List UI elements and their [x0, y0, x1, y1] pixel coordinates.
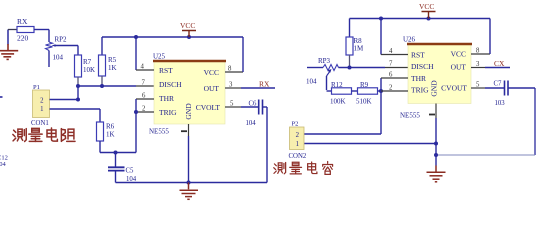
svg-text:510K: 510K: [356, 98, 372, 106]
svg-text:220: 220: [17, 34, 29, 43]
svg-text:NE555: NE555: [149, 128, 169, 136]
svg-text:1: 1: [296, 141, 299, 148]
svg-text:DISCH: DISCH: [411, 62, 434, 71]
svg-text:CVOUT: CVOUT: [441, 83, 467, 92]
svg-text:RP2: RP2: [55, 36, 68, 44]
svg-text:5: 5: [476, 82, 480, 89]
svg-text:VCC: VCC: [204, 68, 219, 77]
svg-text:U26: U26: [403, 36, 416, 44]
svg-text:104: 104: [246, 120, 257, 127]
svg-text:104: 104: [0, 161, 7, 168]
svg-text:GND: GND: [184, 103, 193, 120]
svg-text:R7: R7: [83, 58, 92, 66]
svg-text:TRIG: TRIG: [411, 85, 429, 94]
svg-text:5: 5: [230, 101, 234, 108]
svg-text:CVOLT: CVOLT: [196, 103, 221, 112]
svg-text:CON2: CON2: [289, 153, 307, 160]
svg-text:1M: 1M: [354, 45, 365, 53]
svg-text:100K: 100K: [330, 98, 346, 106]
svg-text:103: 103: [495, 100, 506, 107]
svg-text:7: 7: [142, 80, 146, 87]
svg-text:VCC: VCC: [451, 49, 466, 58]
svg-text:104: 104: [53, 54, 64, 62]
svg-text:RST: RST: [159, 66, 173, 75]
svg-text:C5: C5: [126, 167, 135, 174]
svg-text:4: 4: [389, 48, 393, 55]
svg-text:RP3: RP3: [318, 57, 331, 65]
svg-text:P1: P1: [33, 84, 40, 91]
svg-text:8: 8: [476, 48, 480, 55]
svg-text:NE555: NE555: [400, 112, 420, 120]
svg-text:VCC: VCC: [419, 2, 434, 11]
svg-text:RST: RST: [411, 50, 425, 59]
svg-text:CX: CX: [494, 59, 505, 68]
svg-text:R9: R9: [360, 81, 369, 89]
svg-text:VCC: VCC: [180, 21, 195, 30]
svg-text:P2: P2: [292, 121, 299, 128]
svg-text:RX: RX: [259, 80, 270, 89]
svg-text:104: 104: [306, 78, 317, 86]
svg-text:OUT: OUT: [451, 62, 467, 71]
svg-text:TRIG: TRIG: [159, 108, 177, 117]
svg-text:1K: 1K: [108, 64, 117, 72]
svg-text:OUT: OUT: [204, 84, 220, 93]
svg-text:7: 7: [389, 61, 393, 68]
svg-text:2: 2: [389, 85, 393, 92]
svg-text:10K: 10K: [83, 66, 95, 74]
svg-text:1K: 1K: [106, 131, 115, 139]
svg-text:C7: C7: [494, 81, 503, 88]
svg-text:GND: GND: [430, 80, 439, 97]
svg-text:THR: THR: [159, 94, 174, 103]
svg-text:THR: THR: [411, 74, 426, 83]
svg-text:2: 2: [40, 98, 44, 105]
svg-text:U25: U25: [153, 53, 166, 61]
svg-text:RX: RX: [17, 17, 28, 26]
svg-text:4: 4: [141, 64, 145, 71]
svg-text:R5: R5: [108, 56, 117, 64]
svg-text:2: 2: [296, 132, 300, 139]
svg-text:CON1: CON1: [31, 120, 49, 127]
svg-text:8: 8: [228, 66, 232, 73]
svg-text:3: 3: [229, 82, 233, 89]
svg-text:C6: C6: [249, 101, 258, 108]
svg-text:R6: R6: [106, 123, 115, 131]
svg-text:6: 6: [389, 72, 393, 79]
svg-text:R12: R12: [331, 81, 343, 89]
svg-text:1: 1: [40, 106, 43, 113]
svg-text:2: 2: [142, 106, 146, 113]
svg-text:DISCH: DISCH: [159, 80, 182, 89]
svg-text:6: 6: [142, 93, 146, 100]
svg-text:3: 3: [476, 61, 480, 68]
